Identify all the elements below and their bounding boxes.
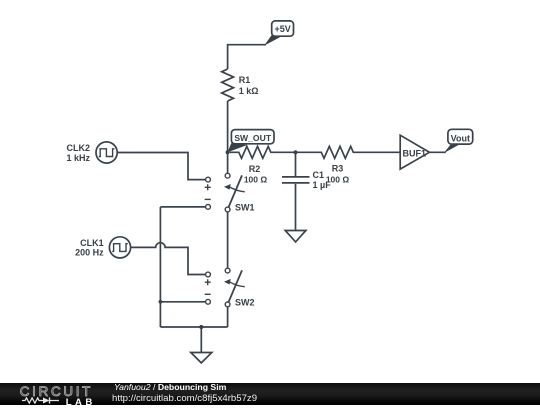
CircuitLab logo resistor-diode glyph — [22, 397, 59, 404]
resistor R2 — [230, 146, 296, 184]
wire CLK1 to SW2 control + (with hop over vertical) — [131, 243, 206, 275]
resistor R1 — [222, 69, 259, 101]
op-amp buffer BUF1 — [400, 135, 429, 169]
svg-text:CLK1: CLK1 — [80, 238, 104, 248]
wire CLK2 to SW1 control + — [117, 153, 205, 180]
wire R1 to node SW_OUT — [227, 101, 229, 173]
svg-text:R1: R1 — [239, 75, 251, 85]
svg-text:SW_OUT: SW_OUT — [234, 133, 272, 143]
node SW_OUT junction dot — [226, 150, 230, 154]
wire BUF1 output — [429, 151, 445, 153]
svg-text:100 Ω: 100 Ω — [326, 174, 350, 184]
svg-text:CLK2: CLK2 — [66, 143, 90, 153]
svg-text:1 kΩ: 1 kΩ — [239, 86, 259, 96]
node left bus / SW2 control junction dot — [159, 300, 163, 304]
voltage source CLK2 — [66, 142, 117, 163]
wire SW1 control - to left bus — [160, 206, 205, 208]
switch SW1 — [205, 173, 255, 212]
footer url line — [112, 393, 257, 404]
svg-text:100 Ω: 100 Ω — [244, 174, 268, 184]
CircuitLab logo LAB — [66, 397, 96, 408]
svg-text:+5V: +5V — [274, 24, 290, 34]
resistor R3 — [296, 146, 401, 184]
wire SW2 control - to left bus — [160, 301, 205, 303]
voltage source CLK1 — [75, 237, 131, 258]
node C1 top junction dot — [293, 150, 297, 154]
net flag Vout — [444, 129, 473, 153]
net flag SW_OUT — [228, 130, 274, 153]
svg-text:1 kHz: 1 kHz — [66, 153, 90, 163]
svg-text:C1: C1 — [313, 170, 325, 180]
capacitor C1 — [282, 152, 331, 230]
svg-text:Vout: Vout — [451, 133, 470, 143]
svg-text:200 Hz: 200 Hz — [75, 248, 104, 258]
ground under C1 — [285, 231, 306, 242]
CircuitLab logo CIRCUIT — [20, 384, 93, 399]
wire bottom rail — [160, 326, 227, 328]
wire SW1 bottom to SW2 top — [227, 212, 229, 268]
ground — [191, 353, 212, 363]
node ground tap junction dot — [199, 325, 203, 329]
svg-text:R3: R3 — [332, 164, 344, 174]
net flag +5V — [228, 21, 294, 69]
wire SW2 bottom to rail — [227, 307, 229, 327]
wire left bus vertical — [159, 207, 161, 327]
svg-text:SW2: SW2 — [235, 298, 255, 308]
svg-text:SW1: SW1 — [235, 203, 255, 213]
svg-text:R2: R2 — [249, 164, 261, 174]
svg-text:BUF1: BUF1 — [403, 148, 427, 158]
switch SW2 — [205, 268, 255, 307]
footer title line — [114, 382, 226, 392]
wire to ground — [200, 327, 202, 353]
